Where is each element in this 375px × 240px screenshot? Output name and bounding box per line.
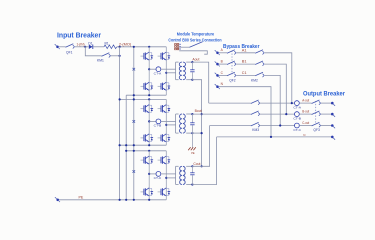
node rail B bottom bus1 — [119, 144, 121, 146]
terminal out A — [331, 102, 335, 106]
terminal out B — [331, 113, 335, 117]
contactor KM3 pole B — [251, 111, 260, 116]
thermostat switch ST — [179, 42, 207, 54]
svg-text:KM3: KM3 — [252, 128, 259, 132]
wire C right mid to transformer — [166, 177, 175, 179]
wire row N — [217, 136, 331, 138]
rail C top — [126, 150, 166, 152]
capacitor C1 — [190, 62, 194, 80]
svg-text:Output Breaker: Output Breaker — [303, 91, 346, 97]
wire bypass C to output — [265, 75, 281, 125]
breaker QF2 pole C — [227, 72, 236, 77]
terminal bypass B — [215, 62, 220, 67]
wire — [219, 63, 227, 65]
wire — [117, 46, 167, 48]
wire — [93, 46, 104, 48]
svg-text:CT-C: CT-C — [154, 176, 163, 180]
node bus bottom 3 — [133, 199, 135, 201]
svg-text:CT-C: CT-C — [293, 128, 302, 132]
wire — [75, 46, 85, 48]
contactor KM3 pole C — [251, 122, 260, 127]
transistor V11 (C lower-left IGBT) — [141, 188, 154, 196]
svg-text:Aout: Aout — [192, 57, 199, 61]
node series join C-high — [201, 165, 203, 167]
wire — [85, 46, 88, 48]
wire — [236, 63, 255, 65]
capacitor C3 — [190, 166, 194, 184]
breaker QF2 pole B — [227, 61, 236, 66]
cross marker A — [133, 68, 136, 71]
wire — [260, 113, 295, 115]
wire phase C out jog — [192, 126, 209, 167]
node bus bottom 2 — [125, 199, 127, 201]
wire phase A out jog — [192, 62, 208, 103]
CT CT-B — [295, 112, 300, 117]
CT CT-B1 — [156, 119, 161, 124]
transistor V5 (B upper-left IGBT) — [141, 105, 154, 113]
transistor V2 (A upper-right IGBT) — [158, 52, 171, 60]
node 1-(IN) — [84, 46, 86, 48]
wire — [236, 74, 255, 76]
svg-text:QF1: QF1 — [66, 51, 73, 55]
wire — [299, 125, 311, 127]
wire C mid to CT — [149, 173, 156, 175]
transistor V1 (A upper-left IGBT) — [141, 52, 154, 60]
wire leg C right — [165, 151, 167, 200]
wire bypass N to output — [219, 87, 271, 137]
terminal out C — [331, 124, 335, 128]
node B mid right — [165, 124, 167, 126]
svg-text:C1: C1 — [242, 71, 247, 75]
node rail B top bus1 — [119, 98, 121, 100]
node KM1 join — [119, 55, 121, 57]
wire bypass B to output — [265, 64, 287, 114]
rail B bottom — [120, 144, 167, 146]
breaker QF1 — [66, 44, 75, 49]
node bus A top — [133, 46, 135, 48]
svg-text:B1: B1 — [242, 60, 247, 64]
svg-text:B: B — [221, 60, 223, 64]
wire — [299, 113, 311, 115]
node T1 sec top — [191, 61, 193, 63]
node bus bottom leg — [148, 199, 150, 201]
CT CT-C — [295, 123, 300, 128]
node C mid left — [148, 173, 150, 175]
wire leg B left — [148, 99, 150, 145]
wire — [321, 102, 331, 104]
node bus bottom 1 — [119, 199, 121, 201]
transistor V10 (C upper-right IGBT) — [158, 156, 171, 164]
svg-text:2-(MO): 2-(MO) — [119, 43, 131, 47]
wire leg B right — [165, 99, 167, 145]
node T2 sec top — [191, 113, 193, 115]
wire row B — [192, 113, 250, 115]
svg-text:Bout: Bout — [195, 109, 202, 113]
wire series B-low join — [192, 132, 201, 134]
bottom bus — [59, 199, 166, 201]
transistor V4 (A lower-right IGBT) — [158, 82, 171, 90]
cross marker B — [133, 120, 136, 123]
CT CT-A1 — [156, 67, 161, 72]
svg-text:KM1: KM1 — [97, 58, 104, 62]
wire leg C left — [148, 151, 150, 200]
breaker QF2 pole A — [227, 50, 236, 55]
breaker QF3 pole C — [312, 122, 321, 127]
transformer T1 — [176, 62, 193, 80]
wire — [321, 113, 331, 115]
wire leg A left — [148, 47, 150, 95]
svg-text:CT-A: CT-A — [154, 71, 162, 75]
transistor V8 (B lower-right IGBT) — [158, 134, 171, 142]
bus wire DC x133.8 — [133, 47, 135, 200]
node bypass A join — [291, 102, 293, 104]
terminal bypass A — [215, 50, 220, 55]
node A mid right — [165, 72, 167, 74]
linkage QF3 — [315, 101, 317, 124]
bus wire left2 x126.2 — [125, 95, 127, 200]
diode D1 — [88, 42, 92, 49]
svg-text:PE: PE — [191, 151, 195, 155]
wire CT to transformer A — [161, 68, 176, 70]
rail B top — [120, 98, 167, 100]
node C mid right — [165, 177, 167, 179]
terminal bypass C — [215, 73, 220, 78]
bus wire left1 x119.6 — [119, 47, 121, 200]
node T1 sec bottom — [191, 79, 193, 81]
connector XT (temperature control) — [175, 44, 181, 50]
wire CT to transformer C — [161, 173, 176, 175]
svg-text:QF3: QF3 — [313, 128, 320, 132]
node rail B top bus2 — [133, 98, 135, 100]
terminal neutral L — [55, 197, 60, 202]
node rail B bottom bus3 — [133, 144, 135, 146]
breaker QF3 pole B — [312, 111, 321, 116]
svg-text:Input Breaker: Input Breaker — [57, 33, 101, 40]
svg-text:CT-A: CT-A — [293, 106, 301, 110]
svg-text:CT-B: CT-B — [154, 124, 162, 128]
node rail B bottom bus2 — [125, 144, 127, 146]
transistor V12 (C lower-right IGBT) — [158, 188, 171, 196]
svg-text:A1: A1 — [242, 48, 247, 52]
transistor V9 (C upper-left IGBT) — [141, 156, 154, 164]
node rail B bottom leg — [148, 144, 150, 146]
breaker QF3 pole A — [312, 100, 321, 105]
node bypass C join — [279, 124, 281, 126]
transformer T3 — [176, 166, 193, 184]
svg-text:1-(IN): 1-(IN) — [77, 43, 85, 47]
wire CT to transformer B — [161, 120, 176, 122]
node T3 sec top — [191, 165, 193, 167]
wire row C — [210, 125, 251, 127]
transistor V3 (A lower-left IGBT) — [141, 82, 154, 90]
node series join B-high — [201, 113, 203, 115]
node rail A bottom bus — [133, 94, 135, 96]
wire leg A right — [165, 47, 167, 95]
wire B right mid to transformer — [166, 124, 175, 126]
CT CT-A — [295, 101, 300, 106]
node rail C top leg — [148, 150, 150, 152]
transistor V6 (B upper-right IGBT) — [158, 105, 171, 113]
node T2 sec bottom — [191, 132, 193, 134]
wire C-low to N riser — [192, 137, 216, 185]
contactor KM2 pole A — [255, 50, 264, 55]
resistor R1 — [104, 42, 117, 49]
svg-text:A-out: A-out — [302, 99, 309, 103]
ground (PE at neutral) — [188, 133, 196, 155]
node rail C top bus2 — [133, 150, 135, 152]
wire series A-low to C-high — [192, 80, 201, 167]
wire — [219, 74, 227, 76]
bypass contactor KM1 — [85, 47, 119, 63]
linkage QF2 — [231, 51, 233, 75]
CT CT-C1 — [156, 172, 161, 177]
node leg A top — [148, 46, 150, 48]
svg-text:R1: R1 — [105, 42, 109, 46]
terminal input L — [55, 44, 60, 49]
cross marker C — [133, 170, 136, 173]
svg-text:CT-B: CT-B — [293, 117, 301, 121]
wire — [236, 52, 255, 54]
node rail B top leg — [148, 98, 150, 100]
svg-text:KM2: KM2 — [251, 78, 258, 82]
wire — [59, 46, 66, 48]
terminal out N — [331, 136, 335, 140]
wire A right mid to transformer — [166, 72, 175, 74]
rail A bottom — [126, 94, 166, 96]
svg-text:Module Temperature: Module Temperature — [177, 32, 215, 37]
wire B mid to CT — [149, 120, 156, 122]
contactor KM2 pole C — [255, 72, 264, 77]
svg-text:B-out: B-out — [302, 110, 309, 114]
wire row A — [209, 102, 251, 104]
svg-text:QF2: QF2 — [229, 78, 236, 82]
node bypass B join — [285, 113, 287, 115]
wire A mid to CT — [149, 68, 156, 70]
contactor KM3 pole A — [251, 100, 260, 105]
capacitor C2 — [190, 114, 194, 133]
transistor V7 (B lower-left IGBT) — [141, 134, 154, 142]
node bypass N join — [270, 136, 272, 138]
node 2-(MO) — [119, 46, 121, 48]
node A mid left — [148, 68, 150, 70]
wire — [321, 125, 331, 127]
node B mid left — [148, 120, 150, 122]
wire bypass A to output — [265, 53, 292, 103]
contactor KM2 pole B — [255, 61, 264, 66]
svg-text:Control B00 Series Connection: Control B00 Series Connection — [168, 37, 221, 42]
wire — [260, 125, 295, 127]
wire — [260, 102, 295, 104]
node T3 sec bottom — [191, 183, 193, 185]
svg-text:N: N — [303, 133, 305, 137]
terminal bypass N — [215, 84, 220, 89]
svg-text:C-out: C-out — [302, 121, 309, 125]
svg-text:D1: D1 — [88, 42, 92, 46]
node rail A bottom leg — [148, 94, 150, 96]
node rail C top bus1 — [125, 150, 127, 152]
wire — [219, 52, 227, 54]
wire — [299, 102, 311, 104]
svg-text:Cout: Cout — [193, 162, 200, 166]
node series join B-low — [201, 132, 203, 134]
transformer T2 — [176, 114, 193, 133]
